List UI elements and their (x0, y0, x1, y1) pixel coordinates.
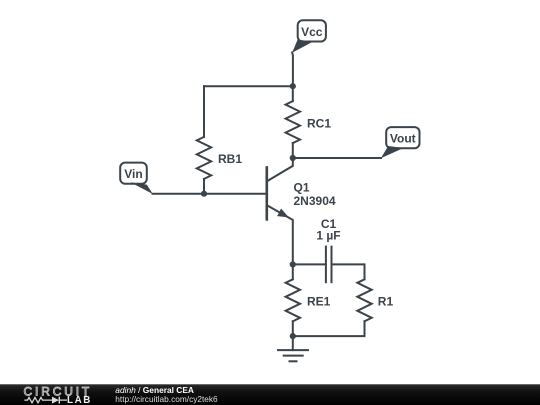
svg-text:http://circuitlab.com/cy2tek6: http://circuitlab.com/cy2tek6 (115, 394, 218, 404)
node bottom (ground) (290, 333, 296, 339)
wire Vcc stub (291, 53, 294, 87)
node RB1/base (201, 191, 207, 197)
flag Vout (381, 127, 420, 158)
svg-text:LAB: LAB (67, 395, 92, 405)
wire RE1 top (292, 264, 294, 279)
transistor Q1 base bar (265, 168, 268, 220)
resistor R1 (357, 279, 371, 321)
wire base (Vin to Q1) (153, 193, 267, 195)
wire C1 left (293, 263, 326, 265)
wire C1 right to R1 (332, 264, 365, 279)
svg-text:Q1: Q1 (294, 181, 310, 195)
node emitter/C1 (290, 261, 296, 267)
wire RC1 top (292, 86, 294, 101)
transistor Q1 emitter lead (268, 206, 293, 265)
svg-text:RB1: RB1 (218, 152, 242, 166)
resistor RB1 (197, 137, 211, 179)
svg-text:Vout: Vout (390, 132, 416, 146)
capacitor C1 plate right (331, 247, 333, 283)
wire collector to Vout (293, 157, 381, 159)
wire RB1 bottom (203, 179, 205, 194)
svg-text:R1: R1 (378, 295, 394, 309)
capacitor C1 plate left (325, 247, 327, 283)
logo resistor-diode symbol (24, 397, 67, 402)
transistor Q1 collector lead (268, 158, 293, 181)
wire top rail (204, 85, 293, 87)
svg-text:RC1: RC1 (307, 116, 331, 130)
svg-text:RE1: RE1 (307, 295, 331, 309)
svg-text:Vcc: Vcc (301, 25, 323, 39)
flag Vin (120, 163, 153, 194)
wire RB1 top (203, 86, 205, 137)
svg-text:1 µF: 1 µF (316, 229, 340, 243)
node collector (290, 155, 296, 161)
logo diode (52, 397, 59, 404)
node top (Vcc rail) (290, 83, 296, 89)
svg-text:2N3904: 2N3904 (294, 194, 336, 208)
flag Vcc (292, 20, 326, 53)
wire RC1 bottom (292, 143, 294, 158)
wire RE1 bottom (292, 321, 294, 336)
resistor RE1 (286, 279, 300, 321)
transistor Q1 emitter arrow (277, 209, 289, 218)
ground (278, 336, 308, 361)
wire R1 bottom (293, 321, 365, 336)
svg-text:Vin: Vin (124, 167, 142, 181)
resistor RC1 (286, 101, 300, 143)
